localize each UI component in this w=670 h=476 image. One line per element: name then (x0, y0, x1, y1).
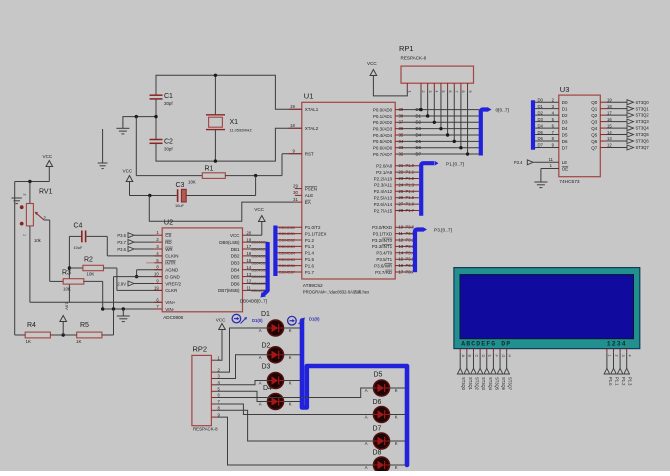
svg-text:P3.[0..7]: P3.[0..7] (434, 228, 452, 234)
svg-text:8: 8 (461, 91, 465, 93)
svg-text:Q0: Q0 (591, 100, 598, 105)
svg-text:D2: D2 (538, 110, 544, 115)
svg-text:D3: D3 (562, 119, 568, 124)
svg-text:K: K (289, 402, 292, 407)
svg-text:DB7(MSB): DB7(MSB) (218, 288, 240, 293)
svg-text:DB04DB3: DB04DB3 (252, 261, 268, 265)
svg-text:DB1: DB1 (231, 247, 240, 252)
svg-text:P1.3: P1.3 (628, 377, 633, 386)
svg-text:34: 34 (399, 139, 404, 144)
svg-text:C3: C3 (176, 182, 185, 189)
svg-text:29: 29 (293, 183, 298, 188)
svg-text:7: 7 (454, 91, 458, 93)
svg-text:Q4: Q4 (591, 126, 598, 131)
svg-text:28: 28 (399, 208, 404, 213)
svg-text:DB04DB2: DB04DB2 (252, 255, 268, 259)
svg-text:D2: D2 (416, 120, 422, 125)
svg-text:10K: 10K (188, 180, 196, 185)
svg-text:37: 37 (399, 120, 404, 125)
svg-text:D2: D2 (262, 343, 271, 350)
svg-text:25: 25 (399, 189, 404, 194)
svg-text:13: 13 (607, 136, 612, 141)
svg-text:INTR: INTR (165, 261, 176, 266)
svg-text:P1.4: P1.4 (406, 189, 415, 194)
svg-text:D0: D0 (538, 97, 544, 102)
svg-text:VIN-: VIN- (165, 307, 175, 312)
svg-text:P2.2/A10: P2.2/A10 (374, 176, 393, 181)
svg-text:ST3Q2: ST3Q2 (474, 377, 479, 391)
svg-text:4: 4 (628, 355, 632, 357)
svg-text:D6: D6 (538, 136, 544, 141)
svg-text:3: 3 (44, 216, 46, 220)
svg-text:ST3Q4: ST3Q4 (488, 377, 493, 391)
svg-text:P3.3/INT1: P3.3/INT1 (372, 244, 393, 249)
svg-text:39: 39 (399, 107, 404, 112)
svg-text:PROGRAM=..\dac0832-0A转换.hex: PROGRAM=..\dac0832-0A转换.hex (303, 289, 370, 296)
svg-text:Q7: Q7 (591, 145, 598, 150)
svg-text:ST3Q6: ST3Q6 (636, 139, 650, 144)
svg-text:12: 12 (399, 238, 404, 243)
svg-text:R2: R2 (84, 257, 93, 264)
svg-text:D4: D4 (263, 385, 272, 392)
svg-text:D5: D5 (374, 372, 383, 379)
svg-text:U3: U3 (560, 85, 570, 94)
svg-text:DB04DB5: DB04DB5 (279, 258, 295, 262)
svg-text:P3.0: P3.0 (406, 225, 415, 230)
svg-text:2: 2 (421, 91, 425, 93)
svg-text:D1: D1 (416, 113, 422, 118)
svg-text:18: 18 (290, 123, 295, 128)
svg-text:P3.6: P3.6 (117, 247, 126, 252)
svg-text:VCC: VCC (230, 233, 240, 238)
svg-text:19: 19 (154, 285, 159, 290)
svg-text:A: A (259, 328, 262, 333)
svg-text:DB04DB4: DB04DB4 (252, 268, 268, 272)
svg-text:36: 36 (399, 126, 404, 131)
svg-text:D0: D0 (562, 100, 568, 105)
svg-text:DB04DB5: DB04DB5 (252, 275, 268, 279)
svg-text:1: 1 (408, 91, 412, 93)
svg-text:RP2: RP2 (193, 345, 208, 354)
svg-text:D6: D6 (562, 139, 568, 144)
svg-text:H: H (507, 355, 511, 358)
svg-text:20: 20 (247, 230, 252, 235)
svg-text:P3.6/WR: P3.6/WR (374, 263, 393, 268)
svg-text:DB04DB7: DB04DB7 (279, 271, 295, 275)
svg-text:P1.1: P1.1 (406, 170, 415, 175)
svg-text:14: 14 (399, 250, 404, 255)
svg-text:A: A (365, 415, 368, 420)
svg-text:D3: D3 (262, 364, 271, 371)
svg-text:RD: RD (165, 240, 172, 245)
svg-text:K: K (289, 381, 292, 386)
svg-text:30: 30 (293, 190, 298, 195)
svg-text:K: K (395, 465, 398, 470)
svg-text:10uF: 10uF (74, 245, 83, 250)
svg-text:38: 38 (399, 113, 404, 118)
svg-text:RESPACK-8: RESPACK-8 (401, 56, 427, 61)
svg-text:U2: U2 (164, 218, 174, 227)
svg-text:P1.6: P1.6 (406, 202, 415, 207)
svg-text:2: 2 (614, 355, 618, 357)
svg-text:D4: D4 (538, 123, 544, 128)
svg-text:G: G (501, 355, 505, 358)
svg-text:35: 35 (399, 132, 404, 137)
svg-text:P3.1/TXD: P3.1/TXD (373, 231, 393, 236)
svg-text:ST3Q1: ST3Q1 (636, 106, 650, 111)
svg-text:P0.2/AD2: P0.2/AD2 (373, 120, 393, 125)
svg-text:11.0592MHZ: 11.0592MHZ (230, 128, 253, 133)
svg-text:D4: D4 (562, 126, 568, 131)
svg-text:K: K (395, 415, 398, 420)
svg-text:10: 10 (399, 225, 404, 230)
svg-text:ST3Q5: ST3Q5 (636, 132, 650, 137)
svg-text:ST3Q3: ST3Q3 (636, 119, 650, 124)
svg-text:P2.5/A13: P2.5/A13 (374, 196, 393, 201)
svg-text:K: K (395, 441, 398, 446)
svg-text:1K: 1K (26, 339, 31, 344)
svg-text:6: 6 (448, 91, 452, 93)
svg-text:D7: D7 (538, 143, 544, 148)
svg-text:OE: OE (562, 166, 569, 171)
svg-text:DB04DB0: DB04DB0 (252, 241, 268, 245)
svg-text:VCC: VCC (216, 317, 226, 322)
svg-text:P1.4: P1.4 (305, 251, 315, 256)
svg-text:C1: C1 (164, 93, 173, 100)
svg-text:10k: 10k (34, 238, 42, 243)
svg-text:D8: D8 (373, 450, 382, 457)
svg-text:3: 3 (621, 355, 625, 357)
svg-text:DB04DB6: DB04DB6 (252, 282, 268, 286)
svg-text:R3: R3 (62, 270, 71, 277)
svg-text:LE: LE (562, 160, 568, 165)
svg-text:P2.7/A15: P2.7/A15 (374, 208, 393, 213)
svg-text:DB04DB0: DB04DB0 (279, 226, 295, 230)
svg-text:WR: WR (165, 247, 173, 252)
svg-text:ALE: ALE (305, 193, 314, 198)
svg-text:DB04DB1: DB04DB1 (252, 248, 268, 252)
svg-text:9: 9 (468, 91, 472, 93)
svg-text:15: 15 (399, 257, 404, 262)
svg-text:U1: U1 (304, 92, 314, 101)
svg-text:14: 14 (607, 130, 612, 135)
svg-text:P1.2: P1.2 (621, 377, 626, 386)
svg-text:10uF: 10uF (175, 203, 184, 208)
svg-text:2: 2 (23, 194, 27, 196)
svg-text:DB04DB[0..7]: DB04DB[0..7] (240, 299, 267, 304)
svg-text:D5: D5 (562, 132, 568, 137)
svg-text:27: 27 (399, 202, 404, 207)
svg-text:ST3Q0: ST3Q0 (461, 377, 466, 391)
svg-text:P0.5/AD5: P0.5/AD5 (373, 139, 393, 144)
svg-text:D6: D6 (416, 145, 422, 150)
svg-text:D3: D3 (416, 126, 422, 131)
svg-text:1: 1 (23, 234, 27, 236)
svg-text:P1.5: P1.5 (305, 257, 315, 262)
svg-text:P3.7/RD: P3.7/RD (375, 270, 393, 275)
svg-text:P2.3/A11: P2.3/A11 (374, 183, 393, 188)
svg-text:11: 11 (399, 231, 404, 236)
svg-text:16: 16 (399, 263, 404, 268)
svg-text:RESPACK-8: RESPACK-8 (193, 427, 218, 432)
svg-text:EA: EA (305, 200, 311, 205)
svg-text:PSEN: PSEN (305, 186, 317, 191)
svg-text:D5: D5 (538, 130, 544, 135)
svg-text:DB4: DB4 (231, 268, 240, 273)
svg-text:19: 19 (290, 104, 295, 109)
svg-text:D7: D7 (373, 426, 382, 433)
svg-text:ST3Q5: ST3Q5 (494, 377, 499, 391)
svg-text:RST: RST (305, 152, 314, 157)
svg-text:ST3Q7: ST3Q7 (508, 377, 513, 391)
svg-text:P1.5: P1.5 (406, 195, 415, 200)
svg-text:D7: D7 (562, 145, 568, 150)
svg-text:P3.2/INT0: P3.2/INT0 (372, 238, 393, 243)
svg-text:1: 1 (608, 355, 612, 357)
svg-text:D6: D6 (373, 399, 382, 406)
svg-text:DB04DB6: DB04DB6 (279, 264, 295, 268)
svg-text:DB6: DB6 (231, 281, 240, 286)
svg-text:11: 11 (549, 157, 554, 162)
svg-text:R5: R5 (80, 322, 89, 329)
svg-text:R4: R4 (27, 322, 36, 329)
svg-text:A: A (365, 441, 368, 446)
svg-text:P1.2: P1.2 (406, 176, 415, 181)
svg-text:A: A (365, 388, 368, 393)
svg-text:3: 3 (428, 91, 432, 93)
svg-text:18: 18 (607, 104, 612, 109)
svg-text:P1.3: P1.3 (305, 244, 315, 249)
svg-text:P0.6/AD6: P0.6/AD6 (373, 146, 393, 151)
svg-text:ADC0808: ADC0808 (163, 315, 183, 320)
svg-text:K: K (289, 355, 292, 360)
svg-text:CLKIN: CLKIN (165, 254, 178, 259)
svg-text:P2.6/A14: P2.6/A14 (374, 202, 393, 207)
svg-text:P2.1/A9: P2.1/A9 (376, 170, 393, 175)
svg-text:23: 23 (399, 176, 404, 181)
svg-text:74HC573: 74HC573 (559, 179, 580, 185)
svg-text:P3.7: P3.7 (117, 240, 126, 245)
svg-text:31: 31 (293, 197, 298, 202)
svg-text:P3.5/T1: P3.5/T1 (376, 257, 392, 262)
svg-text:VIN+: VIN+ (165, 300, 176, 305)
svg-text:P1.[0..7]: P1.[0..7] (446, 161, 464, 167)
svg-text:CLKR: CLKR (165, 288, 178, 293)
svg-text:P1.1: P1.1 (615, 377, 620, 386)
svg-text:D1(0): D1(0) (309, 317, 320, 322)
svg-text:1234: 1234 (607, 340, 627, 347)
svg-text:Q6: Q6 (591, 139, 598, 144)
svg-text:30pf: 30pf (164, 147, 173, 152)
svg-text:D4: D4 (416, 132, 422, 137)
svg-text:30pf: 30pf (164, 101, 173, 106)
svg-text:16: 16 (607, 117, 612, 122)
svg-text:ST3Q0: ST3Q0 (636, 100, 650, 105)
svg-text:D2: D2 (562, 113, 568, 118)
svg-text:C2: C2 (164, 139, 173, 146)
svg-text:D3: D3 (538, 117, 544, 122)
svg-text:32: 32 (399, 151, 404, 156)
svg-text:1K: 1K (76, 339, 81, 344)
svg-text:A: A (259, 381, 262, 386)
svg-text:ST3Q2: ST3Q2 (636, 113, 650, 118)
svg-text:D1(0): D1(0) (252, 318, 263, 323)
svg-text:CS: CS (165, 233, 171, 238)
svg-text:ABCDEFG DP: ABCDEFG DP (461, 340, 511, 347)
svg-text:K: K (395, 388, 398, 393)
svg-text:P0.3/AD3: P0.3/AD3 (373, 126, 393, 131)
svg-text:19: 19 (607, 97, 612, 102)
svg-text:DB5: DB5 (231, 274, 240, 279)
svg-text:Q2: Q2 (591, 113, 598, 118)
svg-text:VCC: VCC (254, 207, 264, 212)
svg-text:X1: X1 (230, 119, 239, 126)
svg-text:Q5: Q5 (591, 132, 598, 137)
svg-text:P0.7/AD7: P0.7/AD7 (373, 152, 393, 157)
svg-text:AGND: AGND (165, 268, 179, 273)
svg-text:12: 12 (607, 143, 612, 148)
svg-text:DB04DB2: DB04DB2 (279, 239, 295, 243)
svg-text:D1: D1 (562, 106, 568, 111)
svg-text:21: 21 (399, 163, 404, 168)
svg-text:0[0..7]: 0[0..7] (496, 108, 509, 114)
svg-text:26: 26 (399, 195, 404, 200)
svg-text:D1: D1 (261, 311, 270, 318)
svg-text:13: 13 (399, 244, 404, 249)
svg-text:2.8V: 2.8V (65, 302, 69, 310)
svg-text:C4: C4 (74, 223, 83, 230)
svg-text:P1.0: P1.0 (406, 163, 415, 168)
svg-text:D1: D1 (538, 104, 544, 109)
svg-text:VCC: VCC (367, 61, 377, 66)
svg-text:P1.7: P1.7 (305, 270, 315, 275)
svg-text:XTAL1: XTAL1 (305, 107, 319, 112)
svg-text:C: C (474, 355, 478, 358)
svg-text:P1.7: P1.7 (406, 208, 415, 213)
svg-text:10K: 10K (87, 272, 95, 277)
svg-text:D5: D5 (416, 139, 422, 144)
svg-text:33: 33 (399, 145, 404, 150)
svg-text:DB2: DB2 (231, 254, 240, 259)
svg-text:10: 10 (154, 272, 159, 277)
svg-text:22: 22 (399, 170, 404, 175)
svg-text:DB04DB3: DB04DB3 (279, 245, 295, 249)
svg-text:P3.4: P3.4 (514, 160, 523, 165)
svg-text:ST3Q4: ST3Q4 (636, 126, 650, 131)
svg-text:RP1: RP1 (399, 44, 414, 53)
svg-text:P0.0/AD0: P0.0/AD0 (373, 107, 393, 112)
svg-text:Q1: Q1 (591, 106, 598, 111)
svg-text:24: 24 (399, 182, 404, 187)
svg-text:2.8V: 2.8V (117, 281, 126, 286)
svg-text:15: 15 (607, 123, 612, 128)
svg-text:D: D (481, 355, 485, 358)
svg-text:A: A (259, 402, 262, 407)
svg-text:10K: 10K (63, 287, 71, 292)
svg-text:P3.4/T0: P3.4/T0 (376, 251, 392, 256)
svg-text:DB3: DB3 (231, 261, 240, 266)
svg-text:D7: D7 (416, 151, 422, 156)
svg-text:P1.0: P1.0 (608, 377, 613, 386)
svg-text:P0.1/AD1: P0.1/AD1 (373, 114, 393, 119)
svg-text:ST3Q3: ST3Q3 (481, 377, 486, 391)
svg-text:P1.0/T2: P1.0/T2 (305, 225, 321, 230)
svg-text:VCC: VCC (43, 154, 53, 159)
svg-text:DB0(LSB): DB0(LSB) (219, 240, 240, 245)
svg-text:VREF/2: VREF/2 (165, 281, 181, 286)
svg-text:P2.4/A12: P2.4/A12 (374, 189, 393, 194)
svg-text:AT89C52: AT89C52 (303, 283, 323, 289)
svg-text:DB04DB4: DB04DB4 (279, 251, 295, 255)
svg-text:17: 17 (399, 270, 404, 275)
svg-text:ST3Q1: ST3Q1 (468, 377, 473, 391)
svg-text:D GND: D GND (165, 274, 180, 279)
svg-text:5: 5 (441, 91, 445, 93)
svg-text:P2.0/A8: P2.0/A8 (376, 164, 393, 169)
svg-text:P1.2: P1.2 (305, 238, 315, 243)
svg-text:P3.5: P3.5 (117, 233, 126, 238)
svg-text:A: A (365, 465, 368, 470)
svg-text:4: 4 (435, 91, 439, 93)
svg-text:A: A (259, 355, 262, 360)
svg-text:Q3: Q3 (591, 119, 598, 124)
svg-text:P0.4/AD4: P0.4/AD4 (373, 133, 393, 138)
svg-text:P3.0/RXD: P3.0/RXD (372, 225, 393, 230)
svg-text:ST3Q7: ST3Q7 (636, 145, 650, 150)
svg-text:P1.3: P1.3 (406, 182, 415, 187)
svg-text:P1.6: P1.6 (305, 263, 315, 268)
svg-text:17: 17 (607, 110, 612, 115)
svg-text:DB04DB1: DB04DB1 (279, 232, 295, 236)
svg-text:P1.1/T2EX: P1.1/T2EX (305, 231, 327, 236)
svg-text:R1: R1 (205, 166, 214, 173)
svg-text:RV1: RV1 (39, 189, 53, 196)
svg-text:XTAL2: XTAL2 (305, 126, 319, 131)
svg-text:K: K (289, 328, 292, 333)
svg-text:VCC: VCC (123, 169, 133, 174)
svg-text:ST3Q6: ST3Q6 (501, 377, 506, 391)
